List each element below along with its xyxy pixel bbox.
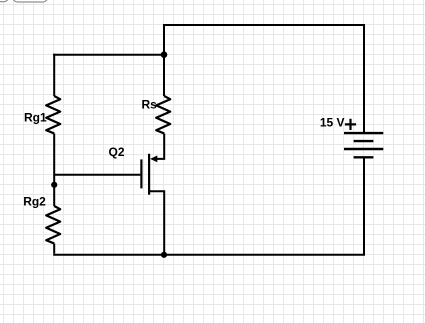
- svg-text:15 V: 15 V: [320, 116, 345, 130]
- battery V1 plate (long): [344, 148, 383, 150]
- battery V1 plate (+ long): [344, 132, 383, 134]
- svg-text:Rg2: Rg2: [23, 194, 46, 208]
- transistor Q2 gate wire: [54, 174, 140, 176]
- junction: top divider node: [161, 51, 168, 58]
- battery V1 polarity + mark: [345, 119, 356, 130]
- transistor Q2 channel bar: [148, 154, 150, 195]
- svg-text:Rs: Rs: [142, 98, 158, 112]
- wire: Rg2 bottom to bottom rail: [53, 244, 55, 254]
- toolbar button (partial, top): [13, 0, 47, 2]
- wire: right rail down to battery +: [363, 24, 365, 133]
- junction: bottom rail / source branch: [161, 252, 167, 258]
- wire: Rg1 top to top junction: [53, 54, 164, 56]
- svg-text:Q2: Q2: [109, 145, 125, 159]
- wire: battery - down to bottom rail: [363, 157, 365, 254]
- transistor Q2 drain arrow: [150, 156, 157, 163]
- resistor Rg2: [46, 206, 60, 244]
- wire: top rail: [163, 24, 364, 26]
- wire: top rail corner down to Rs: [163, 24, 165, 96]
- wire: bottom rail: [53, 254, 365, 256]
- transistor Q2 source lead: [149, 191, 164, 254]
- junction: divider mid node: [51, 182, 57, 188]
- svg-text:Rg1: Rg1: [24, 110, 47, 124]
- wire: left branch top vertical: [53, 54, 55, 96]
- battery V1 plate (short): [354, 140, 374, 142]
- resistor Rg1: [46, 96, 60, 134]
- toolbar button (partial, top-left): [0, 0, 8, 2]
- wire: Rs bottom to Q2 drain: [157, 134, 165, 159]
- resistor Rs: [156, 96, 170, 134]
- battery V1 plate (- short): [354, 156, 374, 158]
- wire: Rg1 bottom to Rg2 top: [53, 134, 55, 207]
- transistor Q2 gate bar: [140, 159, 142, 188]
